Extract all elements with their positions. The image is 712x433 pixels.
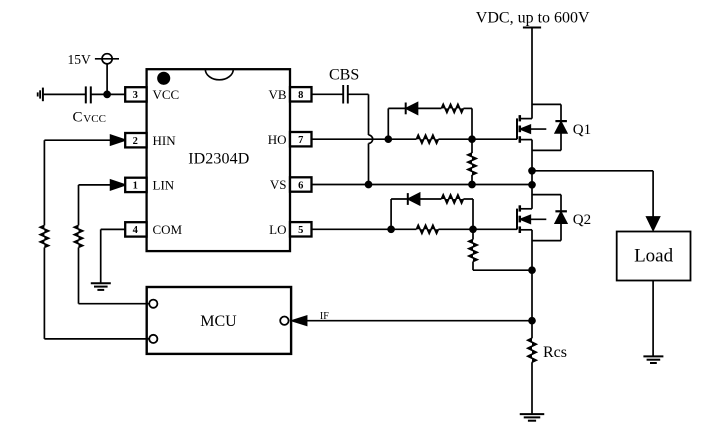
svg-text:ID2304D: ID2304D (188, 151, 249, 168)
svg-text:VB: VB (268, 87, 286, 102)
svg-text:COM: COM (153, 222, 183, 237)
svg-text:LIN: LIN (153, 178, 175, 193)
svg-text:Q2: Q2 (573, 212, 591, 228)
svg-text:5: 5 (298, 225, 303, 236)
svg-text:Load: Load (634, 245, 674, 266)
svg-text:HIN: HIN (153, 133, 177, 148)
svg-text:2: 2 (133, 136, 138, 147)
svg-text:C: C (73, 110, 83, 126)
svg-text:LO: LO (269, 222, 286, 237)
svg-text:VCC: VCC (83, 113, 106, 125)
svg-text:IF: IF (320, 311, 329, 322)
svg-text:8: 8 (298, 90, 303, 101)
svg-text:VDC, up to 600V: VDC, up to 600V (476, 9, 590, 26)
svg-text:Rcs: Rcs (543, 344, 567, 361)
svg-text:1: 1 (133, 181, 138, 192)
svg-text:15V: 15V (67, 52, 91, 67)
svg-text:VS: VS (270, 177, 287, 192)
svg-text:3: 3 (133, 90, 138, 101)
svg-text:4: 4 (133, 225, 139, 236)
svg-text:VCC: VCC (153, 87, 180, 102)
svg-text:Q1: Q1 (573, 122, 591, 138)
svg-text:7: 7 (298, 135, 303, 146)
svg-text:6: 6 (298, 180, 303, 191)
svg-text:CBS: CBS (329, 66, 359, 83)
svg-text:HO: HO (268, 132, 287, 147)
svg-text:MCU: MCU (200, 313, 237, 330)
